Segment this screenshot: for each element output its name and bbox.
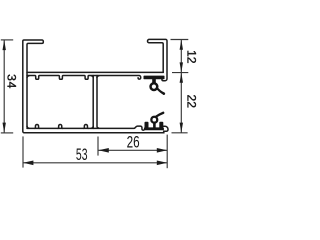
wire plate top line bbox=[27, 71, 163, 73]
wire gasket holder right cap bbox=[164, 126, 168, 131]
svg-text:22: 22 bbox=[184, 95, 198, 109]
dim 34 top tick bbox=[1, 39, 13, 41]
wire left wall outer with top flange and bottom outer line bbox=[23, 40, 164, 133]
svg-text:26: 26 bbox=[127, 134, 140, 152]
svg-text:12: 12 bbox=[184, 50, 198, 64]
arrow 53 right bbox=[157, 161, 167, 166]
dim 22 line bbox=[180, 73, 182, 133]
gasket top: tail bbox=[157, 88, 166, 95]
arrow 12 down bbox=[180, 62, 183, 72]
gasket top: T-bar bbox=[144, 76, 166, 95]
dim 26 line bbox=[98, 149, 167, 151]
dim 34 bottom tick bbox=[1, 132, 13, 134]
svg-text:53: 53 bbox=[76, 146, 88, 164]
arrow 26 right bbox=[157, 148, 167, 153]
wire plate bottom line with screw notches bbox=[27, 76, 141, 80]
dim 22 bottom tick bbox=[172, 132, 188, 134]
arrow 34 up bbox=[3, 40, 6, 50]
gasket bottom: bulb stem bbox=[153, 122, 156, 128]
wire left box bottom bumps bbox=[35, 124, 89, 128]
dim 12 top tick bbox=[171, 39, 189, 41]
arrow 26 left bbox=[98, 148, 108, 153]
dim 26 left extension line bbox=[97, 137, 99, 156]
wire right box left wall bbox=[97, 76, 99, 129]
wire right member top lip bbox=[148, 39, 168, 80]
arrow 12 up bbox=[180, 40, 183, 50]
wire left box right wall bbox=[92, 76, 94, 129]
arrow 34 down bbox=[3, 123, 6, 133]
gasket bottom: base bar with side nubs bbox=[144, 112, 165, 131]
arrow 53 left bbox=[23, 161, 33, 166]
dim 12-22 middle tick bbox=[172, 72, 188, 74]
arrowheads bbox=[3, 40, 184, 166]
gasket top: bulb ring bbox=[151, 83, 158, 90]
arrow 22 down bbox=[180, 123, 183, 133]
dim 53-26 right extension line bbox=[166, 135, 168, 169]
gasket bottom: bulb ring bbox=[151, 117, 157, 123]
svg-text:34: 34 bbox=[5, 74, 19, 89]
dim 53 left extension line bbox=[22, 136, 24, 167]
gasket top: stem bbox=[152, 79, 156, 83]
dim 34 line bbox=[3, 40, 5, 133]
dim 12 line bbox=[180, 40, 182, 73]
wire bottom inner line with ramp and gasket holder left hook bbox=[27, 126, 144, 130]
gasket bottom: tail bbox=[155, 112, 164, 118]
dim 53 line bbox=[23, 162, 167, 164]
dimension lines bbox=[1, 40, 189, 169]
wire box corner fillets bbox=[27, 76, 99, 129]
arrow 22 up bbox=[180, 73, 183, 83]
